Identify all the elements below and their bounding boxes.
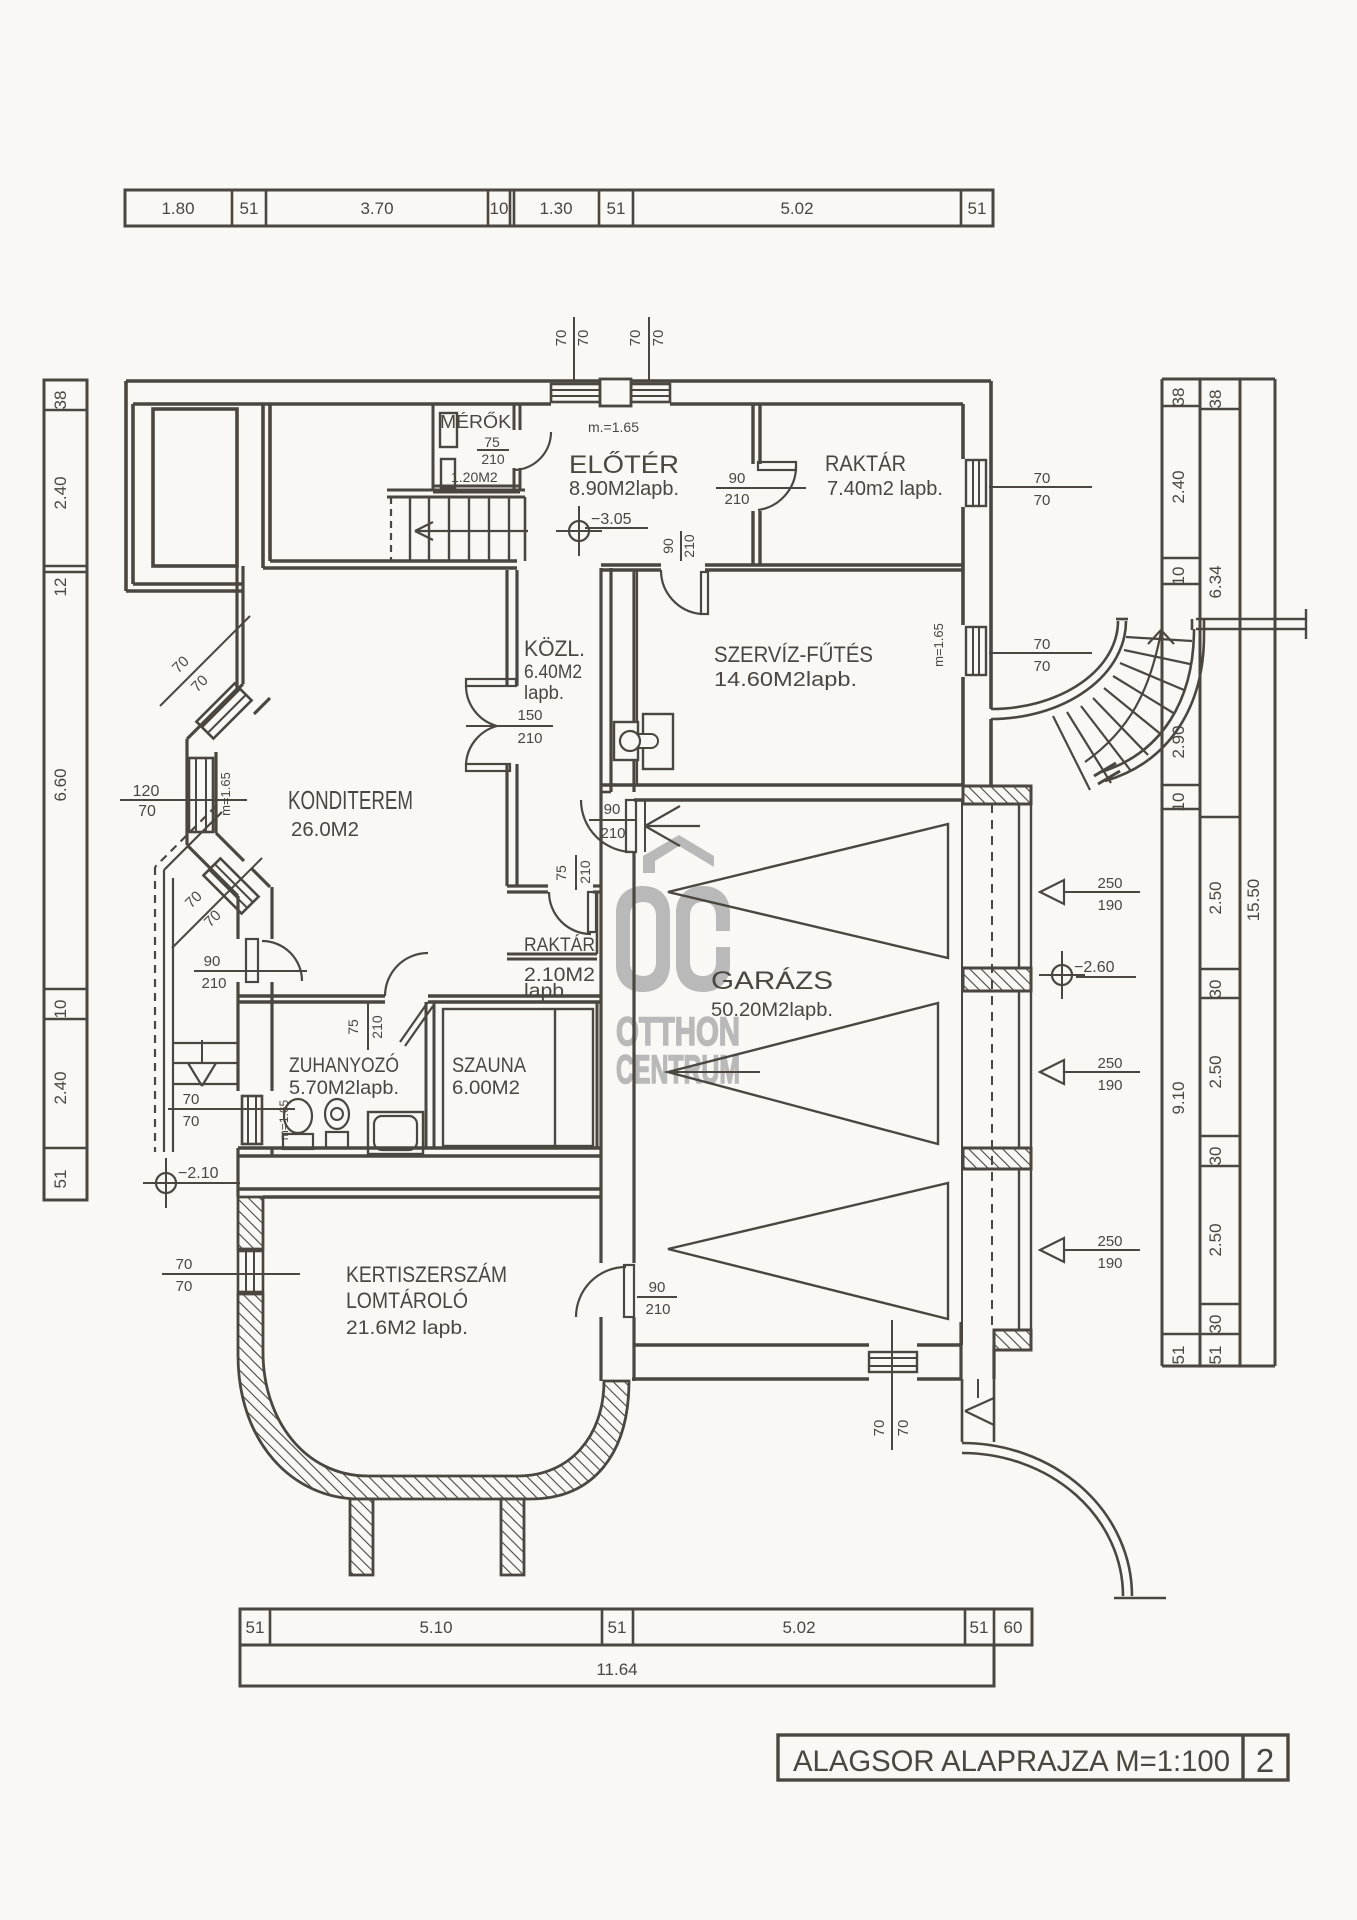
- label 120/70 m=1.65 bay window: [120, 772, 247, 820]
- svg-text:51: 51: [240, 199, 259, 218]
- svg-text:60: 60: [1004, 1618, 1023, 1637]
- svg-text:70: 70: [650, 330, 667, 347]
- corridor east wall and SZERVIZ west wall: [601, 568, 637, 792]
- svg-text:70: 70: [895, 1420, 912, 1437]
- door label 150/210: [466, 707, 553, 747]
- svg-text:90: 90: [729, 470, 746, 487]
- wall ELOTER-RAKTAR with door and arc: [753, 404, 796, 565]
- hatched pillars garage east: [963, 786, 1031, 1350]
- svg-text:ELŐTÉR: ELŐTÉR: [569, 450, 679, 479]
- garage south wall with vent window: [632, 1322, 994, 1379]
- svg-text:75: 75: [345, 1019, 361, 1035]
- dashed terrace outline west of bay: [155, 806, 222, 1152]
- exterior step arrow column bottom right: [962, 1379, 994, 1442]
- KERTISZERSZAM LOMTAROLO labels: [346, 1262, 507, 1339]
- svg-text:70: 70: [1034, 470, 1051, 487]
- svg-text:50.20M2lapb.: 50.20M2lapb.: [711, 1000, 833, 1021]
- ZUHANYOZO labels 5.70M2: [289, 1054, 399, 1099]
- window west wall at ZUHANYOZO: [242, 1096, 262, 1144]
- svg-text:10: 10: [51, 1000, 70, 1019]
- svg-text:5.02: 5.02: [782, 1618, 815, 1637]
- bidet in ZUHANYOZO: [325, 1099, 349, 1148]
- svg-text:−2.10: −2.10: [178, 1165, 219, 1182]
- MEROK meter room walls and meter boxes: [433, 404, 520, 492]
- svg-text:LOMTÁROLÓ: LOMTÁROLÓ: [346, 1288, 468, 1313]
- svg-text:210: 210: [645, 1301, 670, 1318]
- top dimension bar 1.80/51/3.70/10/1.30/51/5.02/51: [125, 190, 993, 226]
- GARAZS labels 50.20M2: [711, 966, 833, 1021]
- RAKTAR 2.10 closet walls and door: [507, 886, 601, 959]
- svg-text:11.64: 11.64: [596, 1660, 637, 1679]
- svg-text:210: 210: [681, 534, 697, 558]
- KONDITEREM west bay walls: [187, 684, 272, 1156]
- svg-text:51: 51: [1169, 1346, 1188, 1365]
- svg-text:lapb.: lapb.: [524, 683, 564, 704]
- svg-text:51: 51: [246, 1618, 265, 1637]
- svg-text:51: 51: [968, 199, 987, 218]
- svg-text:2.40: 2.40: [1169, 470, 1188, 503]
- svg-text:1.30: 1.30: [539, 199, 572, 218]
- svg-text:2: 2: [1256, 1742, 1274, 1779]
- svg-text:120: 120: [133, 783, 160, 800]
- svg-text:10: 10: [490, 199, 509, 218]
- hatched curved wall KERTISZERSZAM: [238, 1294, 629, 1499]
- SZERVIZ-FUTES labels 14.60M2: [714, 642, 873, 691]
- spiral stair outer arc with end cap: [1094, 619, 1204, 784]
- window east wall upper with 70/70 label: [966, 460, 1092, 509]
- two windows with pier in top wall above ELOTER: [551, 379, 670, 406]
- svg-text:210: 210: [201, 975, 226, 992]
- svg-text:6.40M2: 6.40M2: [524, 662, 582, 683]
- bay diagonal window upper: [196, 683, 251, 738]
- svg-text:5.10: 5.10: [419, 1618, 452, 1637]
- svg-text:30: 30: [1206, 1315, 1225, 1334]
- svg-text:30: 30: [1206, 1147, 1225, 1166]
- curved exterior wall bottom right: [962, 1443, 1166, 1598]
- svg-text:KONDITEREM: KONDITEREM: [288, 785, 413, 815]
- svg-text:190: 190: [1097, 897, 1122, 914]
- svg-text:6.60: 6.60: [51, 768, 70, 801]
- curved walkway wall from east facade: [991, 619, 1128, 719]
- SZAUNA labels 6.00M2: [452, 1054, 526, 1099]
- hatched leg 1: [350, 1499, 373, 1575]
- svg-text:21.6M2 lapb.: 21.6M2 lapb.: [346, 1318, 468, 1339]
- svg-text:70: 70: [871, 1420, 888, 1437]
- bottom dimension bars 51/5.10/51/5.02/51/60 and 11.64: [240, 1609, 1032, 1686]
- svg-text:90: 90: [649, 1279, 666, 1296]
- svg-text:8.90M2lapb.: 8.90M2lapb.: [569, 478, 679, 500]
- svg-text:MÉRŐK: MÉRŐK: [440, 411, 511, 432]
- svg-text:RAKTÁR: RAKTÁR: [825, 451, 906, 476]
- garage door size marker 250/190 #3: [1040, 1233, 1140, 1272]
- step arrow into garage: [645, 800, 700, 852]
- bay vertical window 120/70: [189, 758, 213, 832]
- svg-text:30: 30: [1206, 980, 1225, 999]
- svg-text:210: 210: [577, 860, 593, 884]
- svg-text:1.80: 1.80: [161, 199, 194, 218]
- wall over SZERVIZ with door and arc: [601, 565, 963, 614]
- garage west wall with upper door: [581, 792, 636, 1381]
- garage door size marker 250/190 #2: [1040, 1055, 1140, 1094]
- level mark -3.05 in ELOTER: [556, 506, 648, 556]
- label 70/70 m=1.65 at ZUHANYOZO window: [168, 1091, 295, 1140]
- svg-text:70: 70: [138, 803, 156, 820]
- rotated label 75/210 ZUHANYOZO door: [345, 1003, 385, 1050]
- watermark OC Otthon Centrum logo: [616, 835, 740, 1092]
- svg-text:51: 51: [1206, 1346, 1225, 1365]
- svg-text:ZUHANYOZÓ: ZUHANYOZÓ: [289, 1054, 399, 1077]
- svg-text:90: 90: [604, 801, 621, 818]
- hatched leg 2: [501, 1499, 524, 1575]
- svg-text:70: 70: [176, 1278, 193, 1295]
- door 90/210 bay to KONDITEREM: [246, 939, 302, 982]
- svg-text:250: 250: [1097, 1233, 1122, 1250]
- RAKTAR 2.10 labels: [524, 935, 595, 1002]
- svg-text:−2.60: −2.60: [1074, 959, 1115, 976]
- rotated 70/70 label bay upper window: [160, 616, 250, 706]
- svg-text:51: 51: [51, 1170, 70, 1189]
- rotated 70/70 label bay lower window: [172, 858, 262, 948]
- svg-text:RAKTÁR: RAKTÁR: [524, 935, 595, 956]
- svg-text:51: 51: [608, 1618, 627, 1637]
- svg-text:210: 210: [481, 451, 505, 467]
- KONDITEREM south wall with ZUHANYOZO door and diagonal leaf: [238, 953, 601, 1046]
- svg-text:38: 38: [51, 391, 70, 410]
- double line east with end tick: [1196, 609, 1306, 639]
- svg-text:10: 10: [1169, 793, 1188, 812]
- KONDITEREM east wall with 150 double swing door: [466, 570, 517, 886]
- garage upper door label 90/210: [589, 801, 651, 842]
- svg-text:70: 70: [1034, 658, 1051, 675]
- washbasin in ZUHANYOZO: [368, 1112, 423, 1154]
- svg-text:−3.05: −3.05: [591, 511, 632, 528]
- svg-text:14.60M2lapb.: 14.60M2lapb.: [714, 669, 857, 691]
- door KERTISZERSZAM to garage leaf and arc: [576, 1265, 634, 1317]
- room left of stair and wall below stair: [263, 404, 517, 568]
- svg-text:SZERVÍZ-FŰTÉS: SZERVÍZ-FŰTÉS: [714, 642, 873, 667]
- garage door size marker 250/190 #1: [1040, 875, 1140, 914]
- door arc MEROK to ELOTER: [513, 432, 551, 470]
- exterior walls top left right: [126, 381, 991, 785]
- spiral stair up arrow: [1085, 630, 1174, 762]
- light-well room top-left: [153, 409, 237, 566]
- garage door swing triangle 2: [668, 1003, 938, 1144]
- ZUHANYOZO SZAUNA dividing and south walls: [238, 1002, 601, 1156]
- KOZL corridor labels 6.40M2: [524, 636, 585, 704]
- rotated door label 90/210 over SZERVIZ: [660, 531, 697, 561]
- svg-text:lapb.: lapb.: [524, 981, 570, 1002]
- svg-text:26.0M2: 26.0M2: [291, 819, 359, 841]
- svg-text:210: 210: [600, 825, 625, 842]
- level mark -2.10: [143, 1158, 240, 1208]
- svg-text:5.70M2lapb.: 5.70M2lapb.: [289, 1078, 399, 1099]
- svg-text:250: 250: [1097, 1055, 1122, 1072]
- svg-text:70: 70: [176, 1256, 193, 1273]
- svg-text:70: 70: [183, 1113, 200, 1130]
- svg-text:38: 38: [1206, 390, 1225, 409]
- svg-text:5.02: 5.02: [780, 199, 813, 218]
- svg-text:51: 51: [970, 1618, 989, 1637]
- level mark -2.60 in garage: [1039, 951, 1136, 999]
- svg-text:6.00M2: 6.00M2: [452, 1078, 520, 1099]
- svg-text:2.90: 2.90: [1169, 725, 1188, 758]
- svg-text:7.40m2 lapb.: 7.40m2 lapb.: [827, 478, 943, 500]
- MEROK labels 75/210 1.20M2: [440, 411, 511, 485]
- window east wall lower with m=1.65 and 70/70 label: [931, 623, 1092, 675]
- svg-text:90: 90: [204, 953, 221, 970]
- svg-text:2.40: 2.40: [51, 476, 70, 509]
- svg-text:250: 250: [1097, 875, 1122, 892]
- svg-text:3.70: 3.70: [360, 199, 393, 218]
- svg-text:1.20M2: 1.20M2: [451, 469, 498, 485]
- title block ALAGSOR ALAPRAJZA M=1:100 sheet 2: [778, 1735, 1288, 1780]
- svg-text:70: 70: [1034, 636, 1051, 653]
- garage door swing triangle 1: [668, 824, 948, 958]
- svg-text:2.40: 2.40: [51, 1071, 70, 1104]
- svg-text:KERTISZERSZÁM: KERTISZERSZÁM: [346, 1262, 507, 1287]
- svg-text:190: 190: [1097, 1077, 1122, 1094]
- svg-text:GARÁZS: GARÁZS: [711, 966, 833, 995]
- 70/70 window dimension callouts above top wall: [553, 317, 667, 381]
- hatched wall left of KERTISZERSZAM upper: [238, 1197, 263, 1249]
- label 90/210 bay door: [194, 953, 307, 992]
- RAKTAR room labels 7.40m2: [825, 451, 943, 500]
- svg-text:m=1.65: m=1.65: [218, 772, 233, 816]
- garage door swing triangle 3: [668, 1183, 948, 1319]
- svg-text:10: 10: [1169, 567, 1188, 586]
- main stair with risers and left arrow: [387, 490, 528, 561]
- svg-text:9.10: 9.10: [1169, 1081, 1188, 1114]
- svg-text:190: 190: [1097, 1255, 1122, 1272]
- svg-text:38: 38: [1169, 388, 1188, 407]
- window KERTISZERSZAM west: [238, 1251, 263, 1292]
- svg-text:210: 210: [724, 491, 749, 508]
- svg-text:75: 75: [553, 865, 569, 881]
- svg-text:70: 70: [575, 330, 592, 347]
- left dimension bar 38/2.40/12/6.60/10/2.40/51: [44, 380, 87, 1200]
- KERTISZERSZAM top wall: [238, 1156, 601, 1197]
- svg-text:m.=1.65: m.=1.65: [588, 419, 639, 435]
- toilet in ZUHANYOZO: [283, 1099, 313, 1149]
- svg-text:210: 210: [517, 730, 542, 747]
- door label 90/210 kertiszerszam: [637, 1279, 677, 1318]
- ELOTER room labels 8.90M2: [569, 419, 679, 500]
- rotated door label 75/210 closet: [553, 855, 593, 890]
- svg-text:2.50: 2.50: [1206, 1055, 1225, 1088]
- svg-text:12: 12: [51, 578, 70, 597]
- svg-text:SZAUNA: SZAUNA: [452, 1054, 526, 1077]
- garage north wall: [601, 785, 963, 800]
- svg-text:6.34: 6.34: [1206, 565, 1225, 598]
- svg-text:75: 75: [484, 434, 500, 450]
- label 70/70 KERTISZERSZAM window: [162, 1256, 300, 1295]
- svg-text:2.50: 2.50: [1206, 1223, 1225, 1256]
- svg-text:70: 70: [1034, 492, 1051, 509]
- svg-text:m=1.65: m=1.65: [931, 623, 946, 667]
- door label 90/210 at RAKTAR: [716, 470, 806, 508]
- spiral stair treads: [1053, 637, 1192, 790]
- thick wall below light-well: [237, 566, 243, 689]
- svg-text:KÖZL.: KÖZL.: [524, 636, 585, 661]
- svg-text:70: 70: [553, 330, 570, 347]
- svg-text:15.50: 15.50: [1244, 879, 1263, 922]
- svg-text:210: 210: [369, 1015, 385, 1039]
- SZAUNA inner lining and bench: [443, 1009, 593, 1146]
- small exterior stair with down arrow: [174, 1040, 238, 1086]
- svg-text:70: 70: [627, 330, 644, 347]
- garage door frames and dashed opening line: [962, 800, 1031, 1345]
- rotated 70/70 label below garage: [871, 1320, 912, 1450]
- svg-text:51: 51: [607, 199, 626, 218]
- KONDITEREM room labels 26.0M2: [288, 785, 413, 841]
- svg-text:70: 70: [183, 1091, 200, 1108]
- boiler symbol in SZERVIZ-FUTES: [614, 714, 673, 769]
- svg-text:2.50: 2.50: [1206, 881, 1225, 914]
- svg-text:150: 150: [517, 707, 542, 724]
- svg-text:ALAGSOR ALAPRAJZA M=1:100: ALAGSOR ALAPRAJZA M=1:100: [793, 1745, 1230, 1778]
- bay diagonal window lower: [203, 858, 258, 913]
- right dimension bars 38/2.40/10/2.90/10/9.10/51 and 38/6.34/2.50/30 column with 15.50: [1162, 379, 1275, 1366]
- svg-text:90: 90: [660, 538, 676, 554]
